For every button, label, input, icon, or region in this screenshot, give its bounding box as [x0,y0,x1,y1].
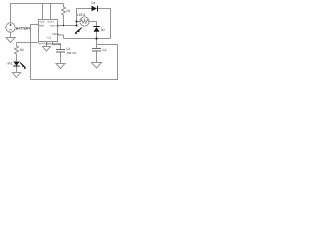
svg-text:CONTROL: CONTROL [51,42,63,45]
svg-text:R1: R1 [67,9,71,13]
svg-text:IR1: IR1 [8,61,13,65]
svg-text:OSC SEL: OSC SEL [50,25,61,28]
svg-text:100 mF: 100 mF [66,51,76,55]
svg-text:U1: U1 [47,35,51,39]
svg-text:OSC1: OSC1 [48,20,55,23]
svg-text:R2: R2 [20,48,24,52]
svg-text:TRIG: TRIG [39,25,45,28]
svg-text:LED1: LED1 [77,13,85,17]
svg-text:THRES: THRES [52,33,60,36]
svg-text:D2: D2 [101,28,105,32]
svg-text:C2: C2 [102,48,106,52]
svg-text:VDD: VDD [40,20,45,23]
svg-text:BATTERY: BATTERY [16,26,31,30]
svg-text:D1: D1 [92,1,96,5]
